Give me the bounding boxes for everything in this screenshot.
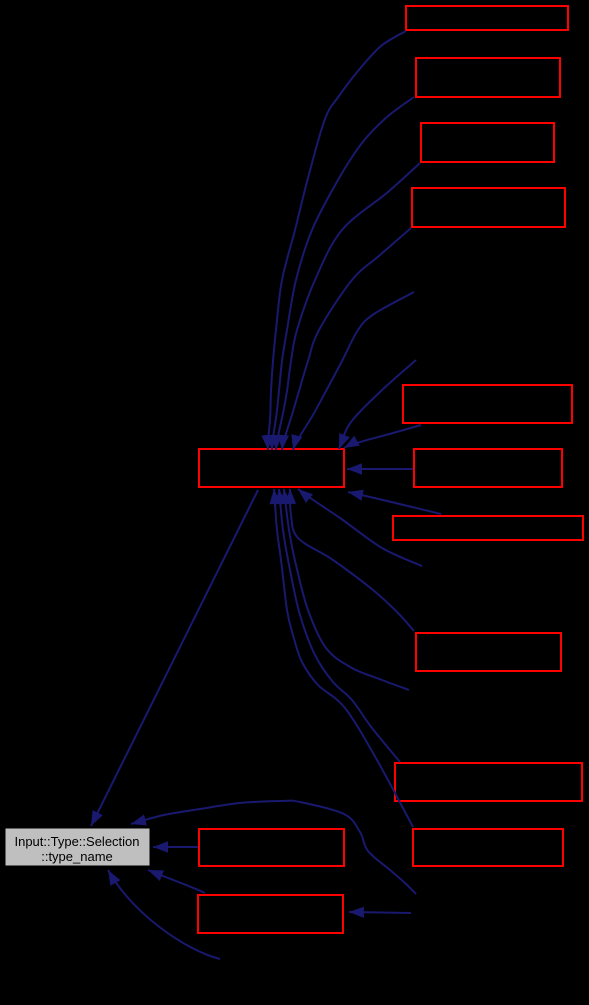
node B4 <box>412 188 565 227</box>
node B6 <box>414 449 562 487</box>
node B5 <box>403 385 572 423</box>
node B8 <box>416 633 561 671</box>
node B1 <box>406 6 568 30</box>
node B9 <box>395 763 582 801</box>
edge central to gray node <box>91 490 258 826</box>
edge B6 to central <box>347 468 413 470</box>
edge B7 to central <box>348 492 441 514</box>
node B2 <box>416 58 560 97</box>
edge B12 to gray node <box>148 870 205 893</box>
edge hidden node to central bottom A <box>298 489 422 566</box>
edge B9 to central <box>279 489 400 762</box>
edge hidden node to central bottom B <box>284 489 409 690</box>
edge hidden node to B12 <box>349 912 411 913</box>
node central <box>199 449 344 487</box>
edge B3 to central <box>276 163 420 450</box>
edge hidden node to gray node bottom <box>108 870 220 959</box>
gray node Input::Type::Selection::type_name <box>5 828 150 866</box>
edge B4 to central <box>282 228 411 450</box>
edge B10 to central <box>274 489 413 827</box>
svg-text:::type_name: ::type_name <box>41 849 113 864</box>
edge B1 to central <box>268 31 406 450</box>
edge B2 to central <box>272 97 414 450</box>
edge hidden node to central A <box>293 292 414 450</box>
node B12 <box>198 895 343 933</box>
edge B11 to gray node <box>153 846 198 848</box>
edge B8 to central <box>290 489 414 631</box>
edge hidden node to central B <box>339 360 416 449</box>
edge B5 to central <box>344 425 421 448</box>
node B7 <box>393 516 583 540</box>
edge hidden node to gray node (s-curve) <box>131 801 416 894</box>
svg-text:Input::Type::Selection: Input::Type::Selection <box>14 834 139 849</box>
node B3 <box>421 123 554 162</box>
node B10 <box>413 829 563 866</box>
node B11 <box>199 829 344 866</box>
